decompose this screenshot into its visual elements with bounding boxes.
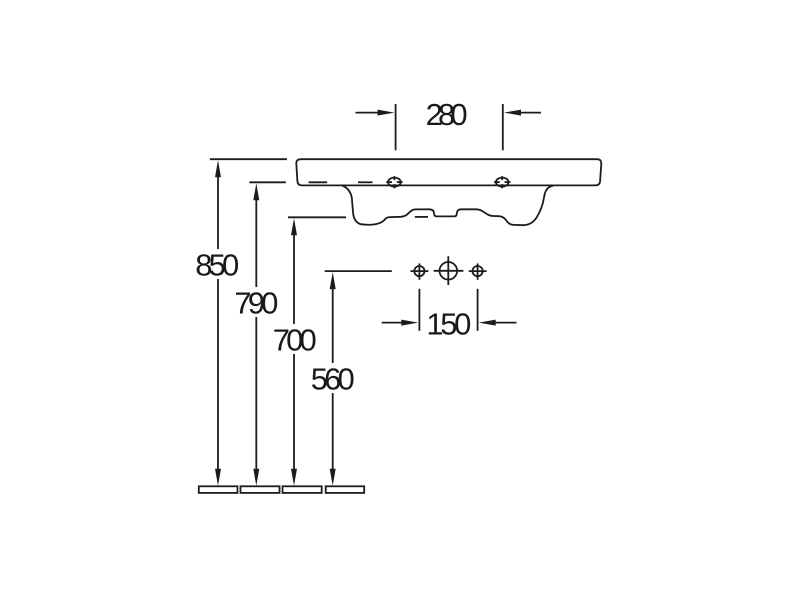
floor tile 3 bbox=[283, 486, 322, 493]
basin bowl profile bbox=[342, 186, 553, 226]
850 arrowhead down bbox=[215, 469, 221, 486]
560 dimension line lower segment bbox=[332, 393, 334, 470]
faucet hole right bbox=[469, 263, 487, 279]
dimension 150 arrowhead left bbox=[401, 320, 418, 326]
790 arrowhead up bbox=[253, 183, 259, 200]
dimension 150 arrow tail right bbox=[494, 322, 517, 324]
floor tile 2 bbox=[241, 486, 280, 493]
floor tile 4 bbox=[326, 486, 365, 493]
560 reference line bbox=[325, 270, 392, 272]
faucet hole left bbox=[411, 263, 429, 279]
850 dimension line upper segment bbox=[217, 176, 219, 249]
dimension 280 arrowhead right bbox=[504, 110, 521, 116]
slab centerline dash 1 bbox=[309, 181, 328, 183]
svg-text:850: 850 bbox=[195, 247, 239, 282]
mounting hole right bbox=[494, 176, 510, 188]
dimension 280 arrow tail right bbox=[520, 112, 542, 114]
dimension 280 extension line left bbox=[395, 104, 397, 150]
dimension 280 extension line right bbox=[502, 104, 504, 150]
850 arrowhead up bbox=[215, 160, 221, 177]
790 dimension line lower segment bbox=[255, 317, 257, 470]
dimension 150 extension line left bbox=[418, 289, 420, 331]
790 dimension line upper segment bbox=[255, 199, 257, 287]
dimension 280 arrow tail left bbox=[356, 112, 380, 114]
560 arrowhead up bbox=[330, 272, 336, 289]
700 dimension line lower segment bbox=[293, 354, 295, 470]
mounting hole left bbox=[386, 176, 402, 188]
washbasin top slab bbox=[296, 159, 601, 185]
560 dimension line upper segment bbox=[332, 288, 334, 363]
700 arrowhead down bbox=[291, 469, 297, 486]
dimension 150 extension line right bbox=[477, 289, 479, 331]
dimension 150 arrow tail left bbox=[382, 322, 403, 324]
svg-text:790: 790 bbox=[234, 285, 278, 320]
560 arrowhead down bbox=[330, 469, 336, 486]
700 reference line bbox=[288, 216, 346, 218]
850 dimension line lower segment bbox=[217, 279, 219, 470]
dimension 280 arrowhead left bbox=[378, 110, 395, 116]
850 reference line bbox=[210, 158, 287, 160]
dimension 150 arrowhead right bbox=[479, 320, 496, 326]
faucet hole center bbox=[434, 256, 464, 285]
790 arrowhead down bbox=[253, 469, 259, 486]
slab centerline dash 2 bbox=[358, 181, 373, 183]
790 reference line bbox=[249, 181, 285, 183]
floor tile 1 bbox=[199, 486, 238, 493]
svg-text:150: 150 bbox=[426, 306, 471, 341]
hidden drain dash bbox=[415, 216, 428, 218]
svg-text:700: 700 bbox=[273, 323, 317, 358]
svg-text:560: 560 bbox=[311, 361, 355, 396]
svg-text:280: 280 bbox=[426, 97, 468, 132]
700 dimension line upper segment bbox=[293, 234, 295, 324]
700 arrowhead up bbox=[291, 218, 297, 235]
